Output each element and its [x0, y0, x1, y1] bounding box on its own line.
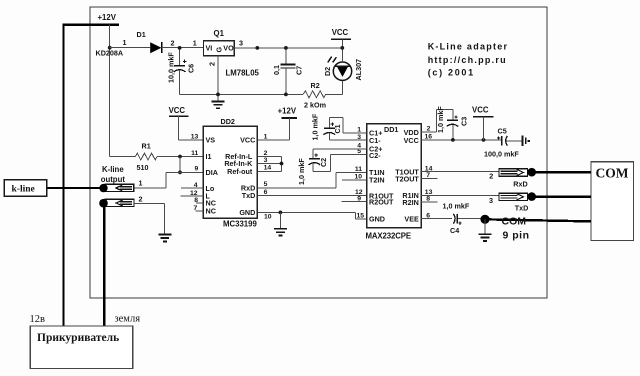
svg-text:COM: COM — [596, 166, 629, 181]
diode D1 KD208A — [150, 42, 161, 53]
capacitor C2 1,0 mkF — [313, 149, 367, 159]
svg-text:VCC: VCC — [472, 105, 489, 114]
svg-text:10,0 mkF: 10,0 mkF — [166, 52, 175, 83]
svg-text:VS: VS — [206, 136, 216, 145]
svg-text:GND: GND — [239, 208, 255, 217]
ground sideways at C5 — [522, 135, 528, 146]
svg-text:+12V: +12V — [98, 13, 117, 22]
svg-text:+12V: +12V — [278, 107, 297, 116]
svg-text:G: G — [215, 47, 224, 53]
svg-text:2: 2 — [489, 171, 493, 180]
wire DD2 GND pin 10 — [257, 212, 366, 219]
svg-text:10: 10 — [264, 214, 272, 221]
svg-text:Прикуриватель: Прикуриватель — [37, 332, 119, 344]
wire DD1 VCC pin 16 rail — [421, 139, 502, 141]
node junction dot DD2 gnd — [279, 211, 283, 215]
svg-text:VCC: VCC — [404, 136, 419, 145]
svg-text:2: 2 — [208, 62, 217, 66]
svg-text:K-line: K-line — [102, 165, 124, 174]
wire TxD thick to COM box — [535, 195, 591, 198]
svg-text:Ref-out: Ref-out — [227, 167, 253, 176]
svg-text:100,0 mkF: 100,0 mkF — [484, 149, 519, 158]
IC DD1 MAX232CPE — [367, 124, 421, 228]
svg-text:0,1: 0,1 — [272, 65, 281, 75]
svg-text:C4: C4 — [450, 226, 459, 235]
svg-text:2: 2 — [139, 195, 143, 204]
wire junction vertical I1 to DIA — [179, 157, 181, 173]
svg-text:2 kOm: 2 kOm — [304, 101, 326, 110]
svg-text:K-Line adapter: K-Line adapter — [428, 41, 509, 51]
wire D1 anode — [110, 47, 151, 49]
svg-text:C2: C2 — [319, 158, 328, 167]
resistor R2 2 kOm — [303, 91, 326, 98]
node junction dot R1/I1 — [178, 155, 182, 159]
svg-text:1: 1 — [264, 133, 268, 140]
wire k-line box to connector 1 — [47, 187, 102, 189]
svg-text:R1: R1 — [142, 142, 151, 151]
svg-text:MC33199: MC33199 — [223, 219, 257, 228]
svg-text:R2: R2 — [311, 81, 320, 90]
svg-text:2: 2 — [264, 150, 268, 157]
k-line box — [4, 180, 47, 197]
DD2 pin 12 L stub — [181, 195, 203, 197]
wire D1 cathode to Q1 — [162, 47, 204, 49]
capacitor C3 1,0 mkF — [421, 109, 453, 132]
svg-text:Q1: Q1 — [214, 29, 225, 38]
svg-text:MAX232CPE: MAX232CPE — [366, 231, 411, 240]
wire dd2 gnd to ground symbol — [279, 212, 281, 228]
svg-text:15: 15 — [356, 213, 364, 220]
svg-text:C5: C5 — [498, 126, 507, 135]
svg-text:LM78L05: LM78L05 — [226, 69, 260, 78]
svg-text:D1: D1 — [137, 30, 146, 39]
COM connector box — [591, 162, 634, 241]
wire DIA line to DD2 pin 9 — [166, 171, 203, 173]
svg-text:5: 5 — [264, 181, 268, 188]
svg-text:TxD: TxD — [515, 203, 529, 212]
svg-text:DD1: DD1 — [384, 125, 398, 134]
wire DD1 T1OUT to RxD connector — [421, 171, 499, 173]
svg-text:C7: C7 — [295, 66, 304, 75]
svg-text:k-line: k-line — [12, 185, 35, 195]
svg-text:DIA: DIA — [206, 168, 218, 177]
svg-text:3: 3 — [489, 196, 493, 205]
svg-text:12в: 12в — [30, 314, 46, 325]
svg-text:R2OUT: R2OUT — [369, 198, 394, 207]
ground under connector 2 wire — [158, 235, 171, 242]
connector RxD pin 2 — [499, 169, 528, 176]
wire connector 2 to ground — [134, 203, 165, 234]
svg-text:C2-: C2- — [369, 151, 381, 160]
wire from +12V rail down to D1 and R1 — [109, 25, 111, 157]
svg-text:1: 1 — [123, 38, 127, 47]
svg-text:C3: C3 — [460, 117, 469, 126]
svg-text:510: 510 — [137, 163, 149, 172]
wire DD2 TxD to DD1 R1OUT — [257, 195, 366, 197]
svg-text:1,0 mkF: 1,0 mkF — [297, 158, 306, 185]
node junction dot Q1 gnd — [216, 93, 220, 97]
node junction dot DIA — [178, 171, 182, 175]
cigarette lighter box (Прикуриватель) — [30, 326, 132, 369]
capacitor C4 1,0 mkF on VEE — [421, 218, 452, 220]
LED D2 AL307 — [333, 62, 351, 80]
DD1 R2IN stub — [421, 201, 438, 203]
wire ground thick feed from cigarette lighter — [103, 204, 105, 326]
svg-text:AL307: AL307 — [354, 59, 363, 81]
svg-text:14: 14 — [264, 165, 272, 172]
svg-text:земля: земля — [115, 314, 141, 325]
svg-text:T2IN: T2IN — [369, 176, 385, 185]
svg-text:13: 13 — [191, 133, 199, 140]
svg-text:VEE: VEE — [404, 215, 419, 224]
ground under DD2 GND — [274, 229, 287, 236]
wire R2 to LED bottom — [326, 80, 343, 94]
svg-text:http://ch.pp.ru: http://ch.pp.ru — [428, 55, 507, 65]
svg-text:DD2: DD2 — [221, 117, 235, 126]
capacitor C7 0,1 — [285, 48, 287, 64]
DD2 pin 4 Lo stub — [181, 187, 203, 189]
wire +12V thick feed from cigarette lighter (vertical) — [62, 23, 64, 326]
svg-text:11: 11 — [191, 150, 198, 157]
connector TxD pin 3 — [499, 193, 528, 200]
svg-text:D2: D2 — [323, 67, 332, 76]
capacitor C5 100,0 mkF — [501, 136, 503, 146]
svg-text:9 pin: 9 pin — [503, 230, 530, 242]
wire Q1 ground pin 2 — [217, 56, 219, 101]
voltage regulator Q1 LM78L05 — [204, 41, 235, 56]
wire DD2 RxD to DD1 T1IN — [257, 172, 366, 188]
ground under COM dot — [479, 234, 492, 241]
wire to ground under COM dot — [484, 219, 486, 234]
wire RxD thick to COM box — [535, 171, 591, 174]
wire +12V thick feed (horizontal top) — [62, 23, 119, 25]
schematic frame border — [90, 7, 547, 298]
svg-text:6: 6 — [264, 189, 268, 196]
wire connector 1 up to DIA line — [134, 172, 167, 188]
svg-text:output: output — [101, 175, 126, 184]
wire analog ground bus under regulator — [180, 93, 303, 95]
svg-text:3: 3 — [264, 157, 268, 164]
svg-text:C6: C6 — [186, 64, 195, 73]
svg-text:TxD: TxD — [242, 191, 256, 200]
node big dot COM ground — [480, 215, 489, 224]
capacitor C6 10,0 mkF — [179, 48, 181, 65]
svg-text:(c) 2001: (c) 2001 — [428, 68, 475, 78]
DD2 right pin numbers — [264, 133, 272, 220]
svg-text:R2IN: R2IN — [402, 198, 418, 207]
connector pin 2 (K-line output ground) — [105, 199, 134, 206]
svg-text:1,0 mkF: 1,0 mkF — [311, 113, 320, 140]
svg-text:2: 2 — [171, 39, 175, 48]
wire COM ground thick to COM box — [489, 219, 592, 221]
DD2 pin 8 NC stub — [196, 202, 203, 204]
svg-text:11: 11 — [355, 166, 362, 173]
wire DD1 R1IN to TxD connector — [421, 194, 499, 196]
svg-text:C1: C1 — [333, 124, 342, 133]
node junction dot (rail) — [255, 46, 259, 50]
svg-text:9: 9 — [195, 166, 199, 173]
svg-text:VCC: VCC — [240, 136, 255, 145]
svg-text:VCC: VCC — [169, 106, 186, 115]
svg-text:COM: COM — [502, 215, 527, 227]
svg-text:1,0 mkF: 1,0 mkF — [443, 201, 470, 210]
node junction dot D1 branch — [108, 46, 112, 50]
svg-text:NC: NC — [206, 207, 216, 216]
resistor R1 510 — [110, 156, 136, 158]
connector pin 1 (K-line output) — [105, 184, 134, 191]
DD2 ref pins 2,3,14 tie bracket — [257, 157, 281, 172]
DD1 left pin numbers — [354, 127, 364, 220]
svg-text:VCC: VCC — [332, 28, 349, 37]
wire R1 to DD2 pin 11 — [157, 156, 203, 158]
svg-text:RxD: RxD — [513, 179, 527, 188]
svg-text:VI: VI — [206, 44, 213, 53]
svg-text:VO: VO — [223, 44, 234, 53]
DD2 pin 7 NC stub — [196, 210, 203, 212]
DD2 left pin numbers — [190, 133, 199, 212]
DD1 right pin numbers — [425, 126, 433, 220]
svg-text:T2OUT: T2OUT — [395, 174, 419, 183]
svg-text:GND: GND — [369, 215, 385, 224]
wire 5V rail from Q1 VO to LED — [234, 47, 342, 49]
DD1 T2IN stub — [342, 179, 367, 181]
svg-text:KD208A: KD208A — [96, 48, 124, 57]
svg-text:1,0 mkF: 1,0 mkF — [436, 106, 445, 133]
DD1 T2OUT stub — [421, 177, 438, 179]
svg-text:I1: I1 — [206, 152, 212, 161]
DD1 R2OUT stub — [342, 201, 367, 203]
capacitor C1 1,0 mkF — [329, 117, 366, 132]
IC DD2 MC33199 — [203, 126, 257, 218]
svg-text:1: 1 — [139, 179, 143, 188]
svg-text:1: 1 — [193, 38, 197, 47]
svg-text:3: 3 — [239, 38, 243, 47]
ground under Q1 — [212, 101, 225, 108]
